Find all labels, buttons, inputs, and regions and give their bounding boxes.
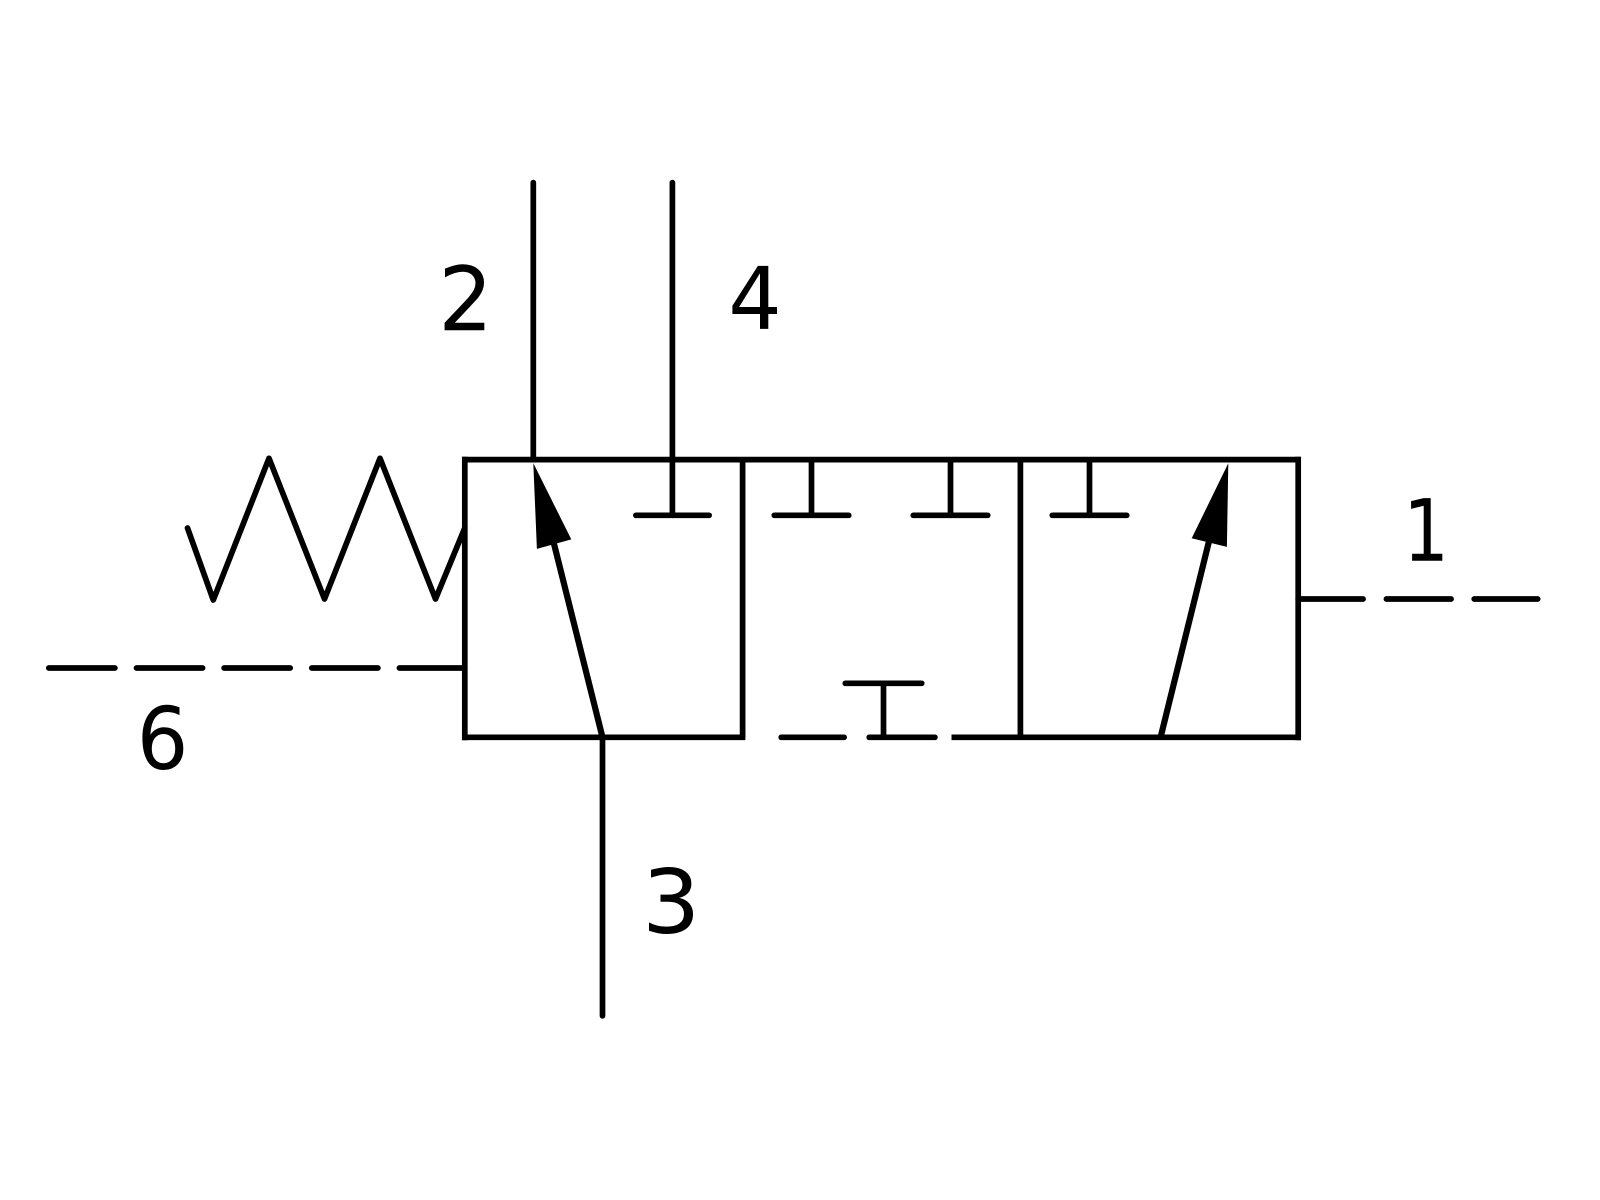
blocked port T bar P2 bottom (845, 680, 921, 686)
label port 1 (1411, 498, 1442, 561)
blocked port T stub P3 top-left (1087, 460, 1093, 516)
label port 4 (732, 266, 777, 329)
flow arrow P1 head (533, 463, 571, 549)
flow arrow P1 shaft (port 3 to port 2) (541, 492, 603, 737)
blocked port T stub P2 top-left (809, 460, 815, 516)
blocked port T bar P3 top-left (1052, 512, 1126, 518)
wire port 2 stem (530, 183, 536, 460)
wire port 3 stem (600, 737, 606, 1016)
valve body outer left edge (462, 457, 468, 740)
pilot line port 6 (dashed) (49, 665, 465, 671)
wire port 4 stem (670, 183, 676, 516)
blocked port seat T bar in P1 (port 4) (636, 512, 709, 518)
valve body outer right edge (1295, 457, 1301, 740)
label port 2 (445, 264, 485, 330)
valve body dashed bottom edge of centre position P2 (781, 734, 935, 740)
pilot line port 1 (dashed) (1298, 596, 1538, 602)
blocked port T stub P2 bottom (881, 683, 887, 737)
valve body bottom edge under position P1 (462, 734, 745, 740)
valve body divider wall P2/P3 (1018, 460, 1024, 738)
label port 3 (649, 867, 693, 934)
valve body bottom edge under position P3 (952, 734, 1302, 740)
valve body divider wall P1/P2 (740, 460, 746, 738)
flow arrow P3 head (1192, 463, 1229, 547)
blocked port T stub P2 top-right (948, 460, 954, 516)
blocked port T bar P2 top-left (774, 512, 848, 518)
spring return symbol (188, 458, 465, 600)
label port 6 (142, 705, 183, 770)
blocked port T bar P2 top-right (913, 512, 987, 518)
valve body outer top edge (462, 457, 1301, 463)
flow arrow P3 shaft (port 1 up) (1161, 523, 1214, 737)
